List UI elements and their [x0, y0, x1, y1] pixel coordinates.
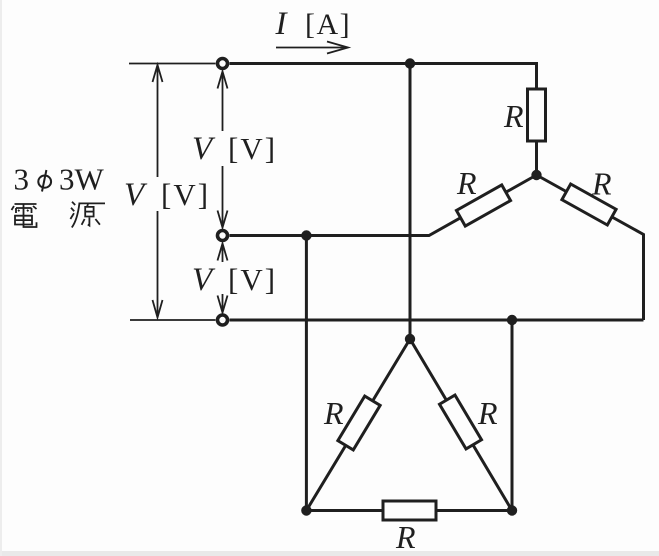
node: top line junction	[405, 58, 415, 68]
svg-text:[V]: [V]	[228, 131, 277, 166]
wire: Y right leg	[537, 175, 644, 320]
node: delta bottom-left vertex	[301, 505, 311, 515]
wire: middle vertical to delta top	[409, 64, 412, 340]
svg-text:[V]: [V]	[161, 177, 210, 212]
label V2 [V]	[192, 262, 277, 298]
svg-text:[V]: [V]	[228, 262, 277, 297]
wire: bottom phase line	[230, 319, 644, 322]
node: delta bottom-right vertex	[507, 505, 517, 515]
node: star point	[531, 170, 541, 180]
label I [A]	[275, 6, 352, 42]
current arrow I	[276, 42, 348, 54]
resistor R5 (delta right)	[439, 395, 481, 449]
wire: delta triangle	[306, 339, 512, 511]
wire: right vertical to delta bottom-right	[511, 320, 514, 511]
svg-text:R: R	[591, 166, 612, 202]
svg-text:R: R	[503, 98, 524, 134]
svg-text:R: R	[456, 165, 477, 201]
label kanji DEN (electric)	[12, 204, 37, 227]
resistor R6 (delta bottom)	[383, 501, 436, 520]
dimension arrow V (line to line, long)	[153, 65, 163, 318]
label V1 [V]	[192, 131, 277, 167]
terminal: middle phase	[218, 231, 228, 241]
resistor R4 (delta left)	[338, 396, 380, 450]
svg-text:I: I	[275, 6, 289, 42]
resistor R3 (Y right)	[562, 184, 616, 225]
label 3phi3W source	[14, 162, 105, 197]
terminal: top phase	[218, 59, 228, 69]
resistor R2 (Y left)	[456, 185, 510, 226]
label V [V] left	[124, 177, 210, 213]
wire: middle phase line and Y left leg	[230, 175, 537, 236]
wire: top phase thin lead	[129, 63, 216, 65]
svg-text:R: R	[323, 395, 344, 431]
svg-text:3: 3	[14, 162, 30, 197]
node: delta top vertex	[405, 334, 415, 344]
resistor R1 (Y top)	[528, 89, 546, 141]
svg-text:[A]: [A]	[305, 8, 351, 41]
wire: top phase line to Y resistor R1	[230, 64, 537, 90]
svg-text:3W: 3W	[59, 162, 105, 197]
dimension arrow V1 (top to middle)	[218, 72, 228, 228]
wire: left vertical to delta bottom-left	[305, 236, 308, 511]
svg-text:R: R	[477, 395, 498, 431]
dimension arrow V2 (middle to bottom)	[218, 244, 228, 313]
phi symbol	[38, 170, 51, 192]
wire: bottom phase thin lead	[130, 319, 216, 321]
svg-text:R: R	[395, 519, 416, 555]
label kanji GEN (source)	[70, 202, 105, 228]
terminal: bottom phase	[218, 315, 228, 325]
node: bottom line junction	[507, 315, 517, 325]
wire: Y lower segment and star point lead	[535, 141, 538, 175]
node: middle line junction	[301, 230, 311, 240]
